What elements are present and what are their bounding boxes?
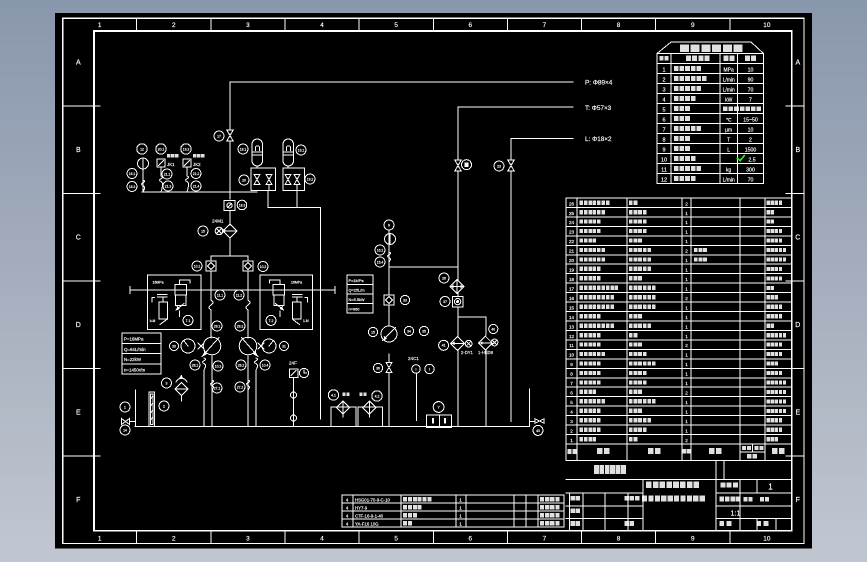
svg-text:1: 1	[685, 286, 688, 291]
label circle 31	[280, 342, 289, 351]
solenoid valve diamond 2-DY1	[451, 336, 465, 350]
svg-text:1: 1	[685, 362, 688, 367]
svg-text:HSG01-70-9-C-10: HSG01-70-9-C-10	[355, 497, 390, 502]
damper squiggle 1	[160, 176, 163, 192]
suction squiggle left	[203, 358, 206, 370]
label circle 41	[439, 340, 449, 350]
svg-text:T: T	[727, 138, 730, 144]
svg-text:3: 3	[246, 536, 250, 543]
svg-text:10: 10	[763, 536, 771, 543]
svg-text:1: 1	[685, 419, 688, 424]
svg-text:12: 12	[569, 334, 575, 339]
shut-off valve 17 on riser	[227, 130, 233, 141]
svg-text:1: 1	[685, 230, 688, 235]
block drain wires to right header	[267, 191, 269, 208]
svg-text:1: 1	[124, 405, 126, 409]
label circle 1	[120, 402, 130, 412]
label circle 10.3	[213, 361, 223, 371]
tank drain valve	[122, 419, 130, 425]
label circle 11.1	[215, 290, 225, 300]
pipe header L line	[511, 138, 573, 140]
svg-text:28.2: 28.2	[238, 363, 245, 367]
svg-text:16.4: 16.4	[377, 260, 384, 264]
svg-text:19.1: 19.1	[298, 148, 305, 152]
return filter JL1 box	[331, 407, 356, 427]
svg-text:E: E	[795, 410, 800, 417]
svg-text:6: 6	[662, 117, 665, 123]
svg-text:1: 1	[685, 334, 688, 339]
svg-text:1: 1	[685, 409, 688, 414]
oil level gauge 2	[149, 392, 155, 427]
svg-text:I: I	[416, 367, 417, 371]
label circle 20.2	[181, 144, 191, 154]
pressure switch 24F square	[290, 369, 299, 378]
svg-text:℃: ℃	[726, 118, 732, 124]
svg-text:Q=25L/m: Q=25L/m	[349, 288, 365, 293]
svg-text:8: 8	[617, 22, 621, 29]
svg-text:L/min: L/min	[723, 78, 735, 84]
pump parameter box 1	[122, 333, 161, 374]
svg-text:1: 1	[685, 268, 688, 273]
svg-text:7: 7	[749, 98, 752, 104]
svg-text:90: 90	[748, 78, 754, 84]
svg-text:16MPa: 16MPa	[153, 281, 164, 285]
svg-text:1: 1	[685, 258, 688, 263]
svg-text:HY7-9: HY7-9	[355, 505, 368, 510]
label circle 28.2	[236, 360, 246, 370]
filter bypass indicator	[215, 227, 223, 235]
svg-text:1: 1	[570, 438, 573, 443]
label circle 7.2	[266, 315, 276, 325]
svg-text:1-M: 1-M	[303, 319, 309, 323]
svg-text:23: 23	[569, 230, 575, 235]
svg-text:15: 15	[371, 330, 375, 334]
svg-text:F: F	[796, 497, 800, 504]
svg-text:3: 3	[662, 87, 665, 93]
label circle 36	[373, 363, 382, 372]
pressure gauge 13	[138, 158, 149, 169]
title block labels	[721, 482, 738, 487]
label circle Y	[433, 402, 444, 413]
BOM parts list table (right)	[566, 198, 792, 461]
svg-text:E: E	[76, 410, 81, 417]
accumulator 18 shell	[252, 139, 263, 166]
svg-text:19: 19	[569, 268, 575, 273]
svg-text:43: 43	[536, 429, 540, 433]
svg-text:5: 5	[570, 400, 573, 405]
outer border frame	[63, 18, 804, 543]
svg-text:2: 2	[570, 428, 573, 433]
svg-text:1: 1	[98, 22, 102, 29]
label circle 40	[489, 324, 498, 333]
svg-text:C: C	[76, 235, 81, 242]
svg-text:36: 36	[376, 366, 380, 370]
shut-off valve 23 on L riser	[508, 160, 514, 171]
svg-text:kW: kW	[725, 98, 733, 104]
label circle 21.1	[162, 169, 172, 179]
coupling X right pump	[258, 343, 264, 349]
svg-text:4: 4	[320, 536, 324, 543]
accumulator safety block 1	[251, 168, 276, 191]
label circle 11.2	[234, 290, 244, 300]
label circle 7.1	[183, 315, 193, 325]
svg-text:23: 23	[497, 164, 501, 168]
branch wire y=317	[458, 316, 486, 318]
cooler diamond 26	[450, 280, 464, 294]
label circle 29.1	[212, 321, 222, 331]
solenoid coil 1-HED8	[491, 339, 498, 346]
label circle 12	[137, 144, 147, 154]
gauge manifold wire y=192	[142, 191, 257, 193]
svg-text:8: 8	[662, 137, 665, 143]
relief main valve 1	[175, 285, 186, 295]
drop wires to tank line	[457, 350, 459, 427]
label circle 15	[198, 226, 208, 236]
check valve square 33	[384, 295, 394, 305]
svg-text:1: 1	[685, 428, 688, 433]
svg-text:12: 12	[661, 177, 667, 183]
right drop wire x=320.5	[320, 208, 322, 420]
relief pilot valve 2	[292, 302, 301, 319]
svg-text:24F: 24F	[289, 360, 297, 365]
svg-text:D: D	[795, 322, 800, 329]
svg-text:2: 2	[685, 296, 688, 301]
svg-text:6: 6	[469, 22, 473, 29]
drive gauge 6.1	[181, 339, 195, 353]
svg-text:10: 10	[661, 157, 667, 163]
svg-text:JK2: JK2	[193, 162, 201, 167]
label circle 10.1	[192, 261, 202, 271]
label circle 4.1	[328, 390, 338, 400]
svg-text:21: 21	[569, 249, 575, 254]
svg-text:7: 7	[543, 22, 547, 29]
svg-text:24M1: 24M1	[212, 219, 224, 224]
pressure test point gauge	[462, 160, 472, 170]
svg-text:2: 2	[172, 536, 176, 543]
svg-text:28.1: 28.1	[192, 363, 199, 367]
tank breather 3 arc	[176, 378, 187, 382]
svg-text:16.1: 16.1	[129, 172, 136, 176]
svg-text:18.1: 18.1	[240, 147, 247, 151]
svg-text:11.2: 11.2	[236, 293, 242, 297]
svg-text:11.1: 11.1	[217, 293, 223, 297]
tags JL1 JL2	[342, 393, 349, 397]
svg-text:16: 16	[569, 296, 575, 301]
tank unit twin boxes	[427, 415, 452, 427]
relief manifold wire y=290 with break ticks	[130, 289, 335, 291]
svg-text:5: 5	[394, 536, 398, 543]
svg-text:1: 1	[685, 381, 688, 386]
T riser wire x=458	[457, 107, 459, 160]
svg-text:14: 14	[569, 315, 575, 320]
drive gauge 6.2	[262, 339, 276, 353]
svg-text:7: 7	[662, 127, 665, 133]
svg-text:24C1: 24C1	[408, 356, 419, 361]
tank breather filter diamond	[175, 383, 188, 396]
svg-text:7.2: 7.2	[269, 319, 274, 323]
svg-text:N=22kW: N=22kW	[124, 357, 142, 362]
svg-text:1:1: 1:1	[731, 509, 741, 518]
svg-text:L: Φ18×2: L: Φ18×2	[585, 136, 612, 143]
svg-text:2: 2	[685, 438, 688, 443]
label circle 17	[214, 131, 224, 141]
svg-text:20.1: 20.1	[158, 147, 165, 151]
svg-text:22: 22	[569, 239, 575, 244]
auxiliary parts table (bottom middle)	[342, 495, 564, 527]
svg-text:25: 25	[569, 211, 575, 216]
accumulator 19 shell	[283, 139, 294, 166]
label circle 16.1	[127, 169, 137, 179]
svg-text:2: 2	[685, 391, 688, 396]
top/bottom grid bands with column numbers 1-10	[136, 18, 138, 31]
svg-text:4: 4	[570, 409, 573, 414]
title block (bottom right)	[566, 460, 792, 530]
svg-text:24: 24	[569, 220, 575, 225]
pipe header P line	[230, 81, 573, 83]
svg-text:1: 1	[459, 497, 462, 502]
svg-text:9: 9	[691, 536, 695, 543]
svg-text:μm: μm	[725, 128, 732, 134]
svg-text:4.1: 4.1	[331, 393, 336, 397]
svg-text:2: 2	[685, 249, 688, 254]
svg-text:kg: kg	[726, 168, 732, 174]
svg-text:1: 1	[768, 483, 773, 492]
suction squiggles lower	[211, 380, 214, 390]
svg-text:4: 4	[662, 97, 665, 103]
label circle 21.3	[163, 181, 173, 191]
label circle 16.2	[375, 245, 385, 255]
svg-text:1: 1	[685, 220, 688, 225]
svg-text:2: 2	[172, 22, 176, 29]
svg-text:17: 17	[217, 134, 221, 138]
label circle 30	[170, 342, 179, 351]
relief main valve 2	[273, 285, 284, 295]
svg-text:18: 18	[569, 277, 575, 282]
svg-text:13: 13	[569, 324, 575, 329]
svg-text:4: 4	[320, 22, 324, 29]
svg-text:1500: 1500	[745, 148, 757, 154]
inner drawing frame	[94, 31, 792, 531]
label circle 10.4	[260, 360, 270, 370]
svg-text:B: B	[795, 147, 800, 154]
svg-text:L: L	[727, 148, 730, 154]
svg-text:b-M: b-M	[150, 319, 156, 323]
svg-text:1: 1	[685, 400, 688, 405]
branch wire y=267	[389, 266, 458, 268]
timer clock circle	[299, 368, 308, 377]
main pump 5.2 (axial piston)	[239, 337, 257, 355]
svg-text:D: D	[76, 322, 81, 329]
svg-text:7: 7	[570, 381, 573, 386]
drain branch right	[529, 389, 531, 427]
svg-text:2.5: 2.5	[748, 158, 755, 164]
svg-text:1: 1	[685, 372, 688, 377]
pump parameter box 2	[347, 275, 373, 313]
green tick value in parameters table	[738, 156, 745, 161]
technical parameters table (top right)	[657, 42, 764, 184]
svg-text:C7F-16-9-1-40: C7F-16-9-1-40	[355, 513, 384, 518]
small circle joint b	[291, 415, 297, 421]
svg-text:3: 3	[246, 22, 250, 29]
svg-text:27.1: 27.1	[214, 386, 221, 390]
svg-text:MPa: MPa	[724, 68, 735, 74]
damper squiggle 2	[186, 176, 189, 192]
svg-text:2: 2	[749, 138, 752, 144]
svg-text:30: 30	[172, 344, 176, 348]
label circle 34	[404, 326, 413, 335]
svg-text:3: 3	[166, 381, 168, 385]
svg-text:10.2: 10.2	[260, 265, 267, 269]
suction squiggle right	[255, 358, 258, 370]
svg-text:n=1450r/m: n=1450r/m	[124, 367, 145, 372]
relief pilot valve 1	[159, 302, 168, 319]
label circle 18.1	[238, 144, 248, 154]
svg-text:16MPa: 16MPa	[291, 281, 302, 285]
drain stub wire	[135, 390, 137, 427]
drain valve right	[535, 419, 544, 423]
svg-text:15: 15	[201, 229, 205, 233]
main pump 5.1 (axial piston)	[203, 337, 221, 355]
label circle 18.3	[237, 200, 247, 210]
main riser wire x=230	[229, 82, 231, 130]
svg-text:1: 1	[685, 315, 688, 320]
svg-text:1: 1	[685, 277, 688, 282]
svg-text:9: 9	[570, 362, 573, 367]
label circle 19.1	[296, 145, 306, 155]
solenoid coil 2-DY1	[465, 340, 472, 347]
svg-text:10.3: 10.3	[215, 364, 222, 368]
pipe header T line	[458, 106, 573, 108]
svg-text:300: 300	[746, 168, 755, 174]
svg-text:34: 34	[407, 329, 411, 333]
svg-text:15~50: 15~50	[743, 118, 758, 124]
svg-text:10: 10	[763, 22, 771, 29]
label circle I-2	[425, 364, 434, 373]
svg-text:10.4: 10.4	[262, 363, 269, 367]
svg-text:31: 31	[282, 344, 286, 348]
svg-text:2: 2	[163, 404, 165, 408]
accumulator stem wires	[256, 166, 258, 168]
svg-text:35: 35	[422, 329, 426, 333]
svg-text:21.1: 21.1	[164, 172, 171, 176]
label circle 16.4	[375, 257, 385, 267]
label circle 26	[439, 273, 449, 283]
svg-text:11: 11	[661, 167, 667, 173]
svg-text:C: C	[795, 235, 800, 242]
label circle 19.2	[305, 174, 315, 184]
svg-text:P=16MPa: P=16MPa	[124, 337, 144, 342]
svg-text:20: 20	[242, 178, 246, 182]
svg-text:5: 5	[662, 107, 665, 113]
label circle 20b	[239, 175, 249, 185]
label circle 21.4	[191, 181, 201, 191]
svg-text:19.2: 19.2	[307, 177, 314, 181]
label circle 27.1	[212, 383, 222, 393]
svg-text:2-DY1: 2-DY1	[461, 350, 474, 355]
damper squiggle 3	[142, 180, 145, 192]
svg-text:1: 1	[685, 211, 688, 216]
label circle 3	[162, 378, 172, 388]
svg-text:A: A	[795, 60, 800, 67]
svg-text:21.2: 21.2	[193, 172, 200, 176]
label circle 20.1	[156, 144, 166, 154]
label circle 29.2	[235, 321, 245, 331]
check valve square 10.2	[243, 261, 253, 271]
svg-text:T: Φ57×3: T: Φ57×3	[585, 105, 612, 112]
svg-text:7.1: 7.1	[186, 319, 191, 323]
svg-text:16.2: 16.2	[377, 248, 384, 252]
svg-text:17: 17	[569, 286, 575, 291]
return filter JL2 box	[358, 407, 382, 427]
suction wires to tank	[203, 370, 205, 427]
small circle joint a	[291, 392, 297, 398]
svg-text:6: 6	[469, 536, 473, 543]
circulation riser x=389	[388, 230, 390, 295]
svg-text:A: A	[76, 60, 81, 67]
svg-text:1: 1	[98, 536, 102, 543]
svg-text:6: 6	[570, 391, 573, 396]
BOM header row	[566, 459, 792, 461]
svg-text:1: 1	[685, 324, 688, 329]
label circle 9	[384, 220, 394, 230]
svg-text:14: 14	[123, 428, 127, 432]
svg-text:4.2: 4.2	[375, 394, 380, 398]
svg-text:9: 9	[691, 22, 695, 29]
svg-text:21.3: 21.3	[165, 184, 172, 188]
label circle 16.3	[127, 182, 137, 192]
svg-text:15: 15	[569, 305, 575, 310]
pressure gauge 39	[385, 234, 396, 245]
svg-text:P: Φ89×4: P: Φ89×4	[585, 80, 613, 87]
svg-text:16.3: 16.3	[129, 185, 136, 189]
label circle 15b	[368, 327, 377, 336]
shut-off valve 22 on T riser	[455, 160, 461, 171]
svg-text:26: 26	[442, 276, 446, 280]
svg-text:19.3: 19.3	[183, 147, 190, 151]
supply split wire y=256	[211, 255, 248, 257]
tank top line	[135, 426, 530, 428]
svg-text:10: 10	[748, 68, 754, 74]
label circle 35	[419, 326, 428, 335]
svg-text:18.3: 18.3	[239, 203, 246, 207]
high pressure filter 24M1	[223, 224, 237, 238]
label circle 37	[440, 297, 450, 307]
svg-text:70: 70	[748, 178, 754, 184]
label circle 27.2	[235, 382, 245, 392]
label circle 2	[159, 401, 169, 411]
svg-text:2: 2	[685, 201, 688, 206]
label circle 33	[400, 295, 409, 304]
accumulator safety block 2	[283, 168, 305, 191]
svg-text:1: 1	[685, 305, 688, 310]
svg-text:9: 9	[662, 147, 665, 153]
company name	[594, 465, 626, 474]
relief valve station box 2	[260, 275, 313, 330]
svg-text:26: 26	[569, 201, 575, 206]
svg-text:41: 41	[442, 344, 446, 348]
svg-text:1: 1	[459, 521, 462, 526]
tag JK1	[167, 154, 179, 157]
svg-text:40: 40	[491, 327, 495, 331]
svg-text:37: 37	[443, 300, 447, 304]
svg-text:1: 1	[685, 239, 688, 244]
svg-text:29.2: 29.2	[237, 324, 244, 328]
label circle 21.2	[191, 169, 201, 179]
svg-text:2: 2	[685, 343, 688, 348]
instrument wire x=416.4	[415, 373, 417, 421]
label circle 43	[533, 425, 543, 435]
circulation pump 32	[381, 326, 397, 342]
